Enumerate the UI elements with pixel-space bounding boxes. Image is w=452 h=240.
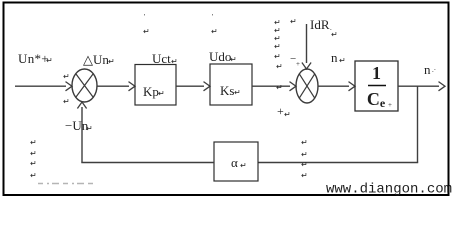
svg-text:↵: ↵ [301, 150, 308, 159]
svg-text:.·: .· [432, 66, 436, 74]
svg-text:+: + [388, 101, 392, 109]
svg-text:↵: ↵ [30, 159, 37, 168]
svg-text:Un*+: Un*+ [18, 51, 49, 66]
svg-text:↵: ↵ [284, 110, 291, 119]
svg-text:Ks: Ks [220, 83, 234, 98]
svg-text:↵: ↵ [339, 56, 346, 65]
svg-text:': ' [212, 13, 213, 21]
svg-text:↵: ↵ [143, 27, 150, 36]
svg-text:↵: ↵ [63, 72, 70, 81]
svg-text:↵: ↵ [86, 124, 93, 133]
svg-text:Ce: Ce [367, 89, 386, 110]
svg-text:↵: ↵ [108, 57, 115, 66]
svg-text:↵: ↵ [230, 55, 237, 64]
wire: input to summing junction 1 [15, 85, 66, 87]
svg-text:+: + [296, 60, 300, 68]
svg-text:↵: ↵ [274, 52, 281, 61]
svg-text:↵: ↵ [290, 17, 297, 26]
arrowhead into summing junction 1 [66, 82, 73, 91]
svg-text:↵: ↵ [63, 97, 70, 106]
wire: IdR drop line into junction 2 [306, 24, 308, 63]
svg-text:↵: ↵ [301, 160, 308, 169]
svg-text:↵: ↵ [240, 161, 247, 170]
svg-text:↵: ↵ [301, 171, 308, 180]
svg-text:α: α [231, 155, 238, 170]
summing junction 2 (IR-drop subtraction) [296, 69, 318, 103]
arrowhead into summing junction 2 [290, 82, 297, 91]
svg-text:↵: ↵ [30, 138, 37, 147]
svg-text:n: n [331, 50, 338, 65]
svg-text:↵: ↵ [331, 30, 338, 39]
block 1/Ce (motor) [355, 61, 398, 111]
wire: feedback riser up into junction 1 [81, 107, 83, 163]
summing junction 1 (speed error comparator) [72, 69, 97, 102]
svg-text:↵: ↵ [274, 42, 281, 51]
svg-text:': ' [144, 13, 145, 21]
arrowhead into Kp block [129, 82, 136, 91]
svg-text:↵: ↵ [30, 171, 37, 180]
arrowhead of IdR line pointing down [302, 63, 311, 70]
svg-text:↵: ↵ [276, 62, 283, 71]
wire: Kp to Ks block [176, 85, 204, 87]
svg-text:↵: ↵ [301, 138, 308, 147]
wire: feedback line right segment (to alpha block) [258, 162, 418, 164]
svg-text:↵: ↵ [158, 89, 165, 98]
wire: Ks to summing junction 2 [252, 85, 290, 87]
wire: junction 2 to 1/Ce block [318, 85, 349, 87]
svg-text:Uct: Uct [152, 51, 171, 66]
wire: takeoff branch down from output [417, 86, 419, 162]
arrowhead output n [439, 82, 446, 91]
svg-text:IdR: IdR [310, 17, 330, 32]
arrowhead into Ks block [204, 82, 211, 91]
arrowhead up into junction 1 [77, 102, 86, 109]
svg-text:Kp: Kp [143, 84, 159, 99]
wire: junction 1 to Kp block [97, 85, 129, 87]
block Kp (speed regulator) [135, 65, 176, 106]
svg-text:↵: ↵ [276, 83, 283, 92]
outer border frame [4, 3, 449, 196]
svg-text:Udo: Udo [209, 49, 231, 64]
svg-text:↵: ↵ [30, 149, 37, 158]
svg-text:↵: ↵ [211, 27, 218, 36]
svg-text:+: + [277, 104, 284, 118]
svg-text:↵: ↵ [234, 88, 241, 97]
svg-text:n: n [424, 62, 431, 77]
wire: feedback line left segment (alpha to riser) [81, 162, 214, 164]
svg-text:↵: ↵ [46, 56, 53, 65]
block Ks (power converter) [210, 64, 252, 105]
svg-text:1: 1 [372, 63, 381, 83]
block alpha (speed feedback coefficient) [214, 142, 258, 181]
svg-text:www.diangon.com: www.diangon.com [326, 182, 452, 198]
wire: 1/Ce to output [398, 85, 439, 87]
arrowhead into 1/Ce block [349, 82, 356, 91]
svg-text:△Un: △Un [83, 52, 109, 67]
faint residue dashes bottom left [38, 183, 96, 185]
